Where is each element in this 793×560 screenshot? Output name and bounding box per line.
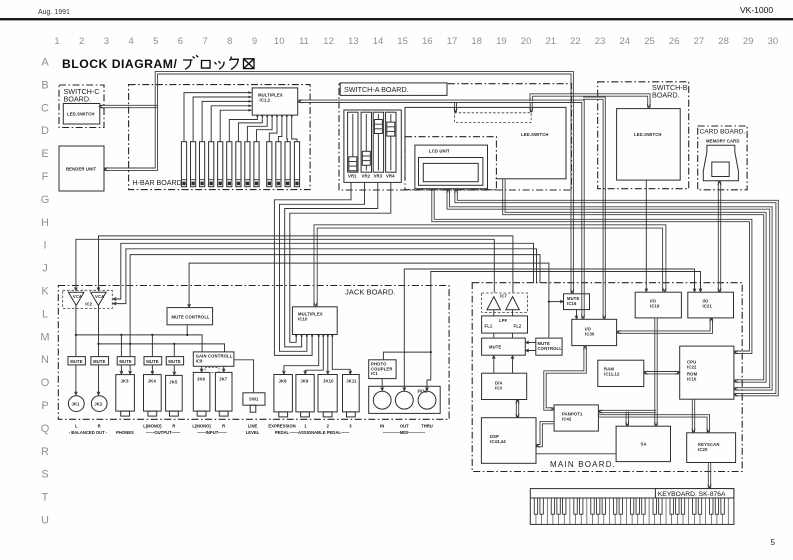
wire multiplex pin6 to drawbar 11 bbox=[278, 115, 282, 141]
svg-text:MUTE: MUTE bbox=[168, 359, 181, 364]
multiplex IC1,2 bbox=[252, 88, 298, 115]
bender unit bbox=[59, 146, 104, 191]
svg-text:VR3: VR3 bbox=[374, 174, 383, 179]
wire MIDI THRU to I/O IC21 bbox=[427, 272, 701, 391]
wire KEYSCAN to keyboard (bus) bbox=[707, 463, 709, 488]
wire branch arrow to switch row A (bus) bbox=[454, 103, 456, 113]
keyboard SK-876A bbox=[530, 489, 734, 525]
svg-text:MUTE: MUTE bbox=[70, 359, 83, 364]
jack JK5 bbox=[166, 375, 183, 416]
dashed switch row bbox=[454, 113, 531, 123]
mute controll (main) bbox=[536, 338, 562, 355]
svg-text:MUTE: MUTE bbox=[146, 359, 159, 364]
svg-text:SA: SA bbox=[641, 442, 647, 447]
svg-text:LEVEL: LEVEL bbox=[246, 430, 260, 435]
board SWITCH-A bbox=[339, 84, 572, 190]
svg-text:IC10: IC10 bbox=[298, 317, 308, 322]
svg-text:H-BAR BOARD.: H-BAR BOARD. bbox=[133, 179, 184, 187]
wire multiplex pin1 to drawbar 6 bbox=[229, 115, 257, 141]
svg-text:JK2: JK2 bbox=[94, 402, 103, 407]
wire VR1 wire bbox=[274, 183, 351, 356]
board SWITCH-C bbox=[59, 85, 104, 128]
jack JK10 bbox=[318, 375, 337, 417]
svg-text:M: M bbox=[40, 331, 49, 343]
svg-text:3: 3 bbox=[104, 36, 109, 47]
svg-text:14: 14 bbox=[373, 36, 384, 47]
wire VCA1 stack a bbox=[493, 310, 495, 316]
svg-text:J: J bbox=[42, 263, 48, 275]
wire IC2 control 1 bbox=[113, 243, 533, 299]
wire jack VCA2 to JK2 lower bbox=[98, 365, 100, 395]
svg-text:O: O bbox=[41, 377, 50, 389]
drawbar 8 bbox=[245, 142, 250, 187]
title bbox=[62, 55, 254, 71]
svg-text:R: R bbox=[98, 424, 101, 429]
wire bus to I/O IC30 (2nd) (bus) bbox=[583, 99, 603, 318]
mute IC16 bbox=[564, 294, 590, 310]
svg-text:BENDER UNIT: BENDER UNIT bbox=[66, 167, 97, 172]
wire GAIN to JK7 bbox=[223, 367, 225, 372]
svg-text:JK1: JK1 bbox=[72, 402, 81, 407]
svg-text:2: 2 bbox=[327, 424, 330, 429]
svg-text:IC7: IC7 bbox=[500, 294, 507, 299]
svg-text:H: H bbox=[41, 217, 49, 229]
svg-text:JK3: JK3 bbox=[121, 379, 130, 384]
slider VR4 bbox=[386, 112, 396, 178]
svg-text:VR2: VR2 bbox=[362, 174, 371, 179]
svg-text:LED.SWITCH: LED.SWITCH bbox=[634, 132, 662, 137]
wire VR4 wire bbox=[290, 183, 391, 342]
svg-text:IC42: IC42 bbox=[562, 416, 572, 421]
svg-text:5: 5 bbox=[771, 538, 776, 547]
svg-text:LINE: LINE bbox=[248, 424, 258, 429]
svg-text:OUT: OUT bbox=[400, 424, 409, 429]
wire multiplex pin2 to drawbar 7 bbox=[238, 115, 262, 141]
wire drawbar 2 to multiplex bbox=[193, 97, 252, 141]
wire LCD bus P1 (bus) bbox=[455, 189, 776, 393]
svg-text:JK10: JK10 bbox=[323, 379, 334, 384]
jack JK2 bbox=[91, 396, 107, 412]
svg-text:IC1: IC1 bbox=[371, 371, 378, 376]
svg-text:FL2: FL2 bbox=[514, 324, 522, 329]
svg-text:9: 9 bbox=[252, 36, 257, 47]
svg-text:2: 2 bbox=[79, 36, 84, 47]
mute box 3 bbox=[117, 357, 135, 365]
wire jack VCA1 to JK1 lower bbox=[75, 365, 77, 395]
MIDI jack JK12 bbox=[369, 386, 441, 413]
wire mute bus B bbox=[99, 344, 225, 352]
svg-text:MUTE: MUTE bbox=[93, 359, 106, 364]
small dashed link bbox=[205, 368, 219, 373]
svg-text:MEMORY CARD: MEMORY CARD bbox=[706, 139, 740, 144]
svg-text:IC43,44: IC43,44 bbox=[490, 439, 506, 444]
wire mute3 feed bbox=[130, 255, 540, 357]
wire IC10 to I/O IC19 bus (bus) bbox=[317, 228, 662, 306]
svg-text:JK5: JK5 bbox=[169, 379, 178, 384]
wire FL to MUTE a bbox=[493, 333, 495, 337]
svg-text:LED.SWITCH: LED.SWITCH bbox=[67, 112, 95, 117]
wire bus to I/O IC30 & IC21 (bus) bbox=[617, 318, 712, 333]
jack JK6 bbox=[193, 372, 210, 416]
svg-text:R: R bbox=[41, 446, 49, 458]
svg-text:IC30: IC30 bbox=[585, 331, 595, 336]
switch SW1 bbox=[243, 393, 265, 412]
svg-text:EXPRESSION: EXPRESSION bbox=[268, 424, 295, 429]
D/A IC3 bbox=[482, 373, 527, 399]
drawbar 12 bbox=[285, 142, 290, 187]
wire multiplex pin8 to drawbar 13 bbox=[292, 115, 297, 141]
svg-text:IC1,2: IC1,2 bbox=[260, 98, 271, 103]
wire bus P4 (bus) bbox=[432, 190, 750, 351]
svg-text:BLOCK DIAGRAM/: BLOCK DIAGRAM/ bbox=[62, 57, 177, 71]
wire SWITCH-B to I/O IC19 bbox=[645, 180, 647, 291]
wire branch to MUTE IC16 bbox=[549, 301, 563, 303]
wire FL to MUTE b bbox=[512, 333, 514, 337]
LED.SWITCH box (SWITCH-A) bbox=[405, 107, 566, 178]
svg-text:KEYBOARD. SK-876A: KEYBOARD. SK-876A bbox=[658, 491, 726, 498]
svg-text:25: 25 bbox=[644, 36, 655, 47]
svg-text:SWITCH-A BOARD.: SWITCH-A BOARD. bbox=[344, 85, 409, 94]
slider assembly bbox=[344, 110, 401, 182]
svg-text:6: 6 bbox=[178, 36, 183, 47]
wire MIDI OUT to I/O IC21 bbox=[404, 269, 694, 391]
mute box 2 bbox=[91, 357, 109, 365]
wire LCD bus P2 (bus) bbox=[447, 189, 770, 388]
svg-text:1: 1 bbox=[304, 424, 307, 429]
jack JK4 bbox=[144, 375, 162, 417]
svg-text:LCD UNIT: LCD UNIT bbox=[429, 149, 450, 154]
svg-text:3: 3 bbox=[349, 424, 352, 429]
jack panel labels bbox=[69, 424, 433, 436]
svg-text:10: 10 bbox=[274, 36, 285, 47]
svg-text:IC20: IC20 bbox=[698, 447, 708, 452]
CPU IC22 ROM IC10 bbox=[680, 346, 734, 399]
gain controll IC8 bbox=[193, 352, 234, 366]
svg-text:D: D bbox=[41, 125, 49, 137]
svg-text:IC19: IC19 bbox=[650, 303, 660, 308]
svg-text:23: 23 bbox=[595, 36, 606, 47]
svg-text:IC8: IC8 bbox=[196, 359, 203, 364]
wire mute controll link bbox=[189, 263, 549, 338]
LED.SWITCH box (SWITCH-C) bbox=[63, 104, 100, 125]
wire SWITCH-C LED feed (bus) bbox=[100, 107, 158, 109]
svg-text:MUTE: MUTE bbox=[119, 359, 132, 364]
wire IC10 pin5 to JK8 bbox=[284, 336, 319, 374]
drawbar 6 bbox=[227, 142, 232, 187]
svg-text:B: B bbox=[41, 79, 48, 91]
svg-text:IC21: IC21 bbox=[703, 303, 713, 308]
svg-text:VR1: VR1 bbox=[348, 174, 357, 179]
wire drawbar 3 to multiplex bbox=[202, 101, 252, 141]
svg-text:JK4: JK4 bbox=[148, 379, 157, 384]
wire jack VCA1 to JK1 bbox=[75, 306, 77, 356]
katakana "block" + kanji "zu" drawn as strokes bbox=[183, 55, 254, 69]
svg-text:S: S bbox=[41, 469, 48, 481]
mute controll (jack board) bbox=[167, 308, 213, 325]
wire PANPOT - DSP link (bus) bbox=[537, 421, 554, 444]
wire branch arrow to switch row B (bus) bbox=[529, 103, 531, 113]
svg-text:26: 26 bbox=[669, 36, 680, 47]
svg-text:R: R bbox=[172, 424, 175, 429]
mute (main) bbox=[482, 338, 526, 355]
svg-text:MUTE CONTROLL: MUTE CONTROLL bbox=[172, 314, 211, 319]
wire IC2 control 2 bbox=[113, 249, 536, 304]
wire busB to MUTE5 bbox=[173, 344, 175, 356]
svg-text:U: U bbox=[41, 515, 49, 527]
svg-text:I: I bbox=[43, 240, 46, 252]
svg-text:BOARD.: BOARD. bbox=[64, 95, 92, 104]
svg-text:17: 17 bbox=[447, 36, 458, 47]
svg-text:IC16: IC16 bbox=[567, 301, 577, 306]
wire MUTE5 to JK5 bbox=[173, 365, 175, 375]
wire mute controll arrow a bbox=[526, 342, 536, 344]
wire MUTE IC16 to I/O IC30 bbox=[576, 310, 578, 319]
slider VR1 bbox=[348, 112, 358, 178]
svg-text:L: L bbox=[42, 308, 48, 320]
svg-text:E: E bbox=[41, 148, 48, 160]
svg-text:F: F bbox=[42, 171, 49, 183]
svg-text:T: T bbox=[42, 492, 49, 504]
wire MUTE3 to JK3 b bbox=[129, 365, 131, 374]
board MAIN bbox=[472, 283, 742, 472]
wire VR2 wire bbox=[280, 183, 365, 351]
svg-text:MAIN BOARD.: MAIN BOARD. bbox=[550, 460, 616, 469]
RAM IC11,12 bbox=[598, 360, 644, 386]
wire drawbar 1 to multiplex bbox=[184, 93, 252, 142]
svg-text:JK11: JK11 bbox=[346, 379, 357, 384]
op-amp pair IC7 bbox=[482, 293, 528, 312]
drawbar 9 bbox=[254, 142, 259, 187]
wire CPU to KEYSCAN (bus) bbox=[691, 400, 693, 433]
wire MUTE4 to JK4 bbox=[151, 365, 153, 374]
svg-text:CONTROLL: CONTROLL bbox=[538, 346, 563, 351]
svg-text:27: 27 bbox=[694, 36, 705, 47]
svg-text:P: P bbox=[41, 400, 48, 412]
drawbar 4 bbox=[209, 142, 214, 187]
wire GAIN to JK6 bbox=[201, 367, 203, 372]
svg-text:29: 29 bbox=[743, 36, 754, 47]
wire main VCA2 to jack VCA2 bbox=[99, 236, 513, 293]
svg-text:7: 7 bbox=[202, 36, 207, 47]
drawbar 2 bbox=[191, 142, 196, 187]
svg-text:21: 21 bbox=[546, 36, 557, 47]
LCD unit bbox=[415, 145, 488, 189]
wire GAIN to SW1 bbox=[234, 360, 253, 393]
svg-text:IC3: IC3 bbox=[495, 385, 502, 390]
LCD unit board bbox=[405, 137, 496, 190]
board CARD bbox=[698, 126, 747, 190]
svg-text:22: 22 bbox=[570, 36, 581, 47]
slider VR3 bbox=[373, 112, 383, 178]
jack JK3 bbox=[116, 375, 135, 417]
wire D/A - DSP bus (bus) bbox=[515, 400, 517, 417]
jack JK9 bbox=[296, 375, 314, 417]
svg-text:Q: Q bbox=[41, 423, 50, 435]
svg-text:IC11,12: IC11,12 bbox=[604, 372, 620, 377]
wire IC10 pin7 to JK10 bbox=[327, 336, 329, 374]
svg-text:K: K bbox=[41, 286, 49, 298]
LED.SWITCH box (SWITCH-B) bbox=[617, 109, 681, 181]
wire IC10 pin6 to JK9 bbox=[305, 336, 323, 374]
wire photo coupler to MIDI IN bbox=[381, 379, 383, 391]
svg-text:20: 20 bbox=[521, 36, 532, 47]
drawbar 11 bbox=[276, 142, 281, 187]
jack JK1 bbox=[68, 396, 84, 412]
DSP IC43,44 bbox=[481, 418, 536, 464]
svg-text:PHONES: PHONES bbox=[116, 430, 134, 435]
svg-text:VR4: VR4 bbox=[386, 174, 395, 179]
svg-text:24: 24 bbox=[620, 36, 631, 47]
svg-text:BOARD.: BOARD. bbox=[652, 91, 680, 100]
wire I/O IC30 - PANPOT snake (bus) bbox=[544, 346, 584, 410]
wire drawbar 5 to multiplex bbox=[220, 110, 251, 141]
wire drop to SA (bus) bbox=[625, 412, 627, 426]
wire drawbar 4 to multiplex bbox=[211, 106, 251, 142]
svg-text:VK-1000: VK-1000 bbox=[740, 5, 773, 15]
KEYSCAN IC20 bbox=[687, 433, 736, 463]
board H-BAR bbox=[129, 85, 311, 190]
op-amp pair IC2 (VCA) bbox=[63, 290, 113, 308]
memory card icon bbox=[703, 145, 738, 181]
svg-text:JK8: JK8 bbox=[279, 379, 288, 384]
drawbar 5 bbox=[218, 142, 223, 187]
wire jack VCA2 to JK2 bbox=[98, 306, 100, 356]
svg-text:IC10: IC10 bbox=[687, 376, 697, 381]
wire SWITCH-B LED feed (bus) bbox=[532, 96, 647, 108]
mute box 1 bbox=[68, 357, 85, 365]
svg-text:18: 18 bbox=[471, 36, 482, 47]
svg-text:VCA: VCA bbox=[73, 294, 82, 299]
wire IC10 pin8 to JK11 bbox=[332, 336, 350, 374]
wire busA to MUTE4 bbox=[151, 335, 153, 356]
svg-text:IC22: IC22 bbox=[687, 364, 697, 369]
svg-text:4: 4 bbox=[128, 36, 133, 47]
svg-text:——INPUT——: ——INPUT—— bbox=[197, 430, 227, 435]
board SWITCH-B bbox=[598, 82, 689, 189]
wire photo coupler feed bbox=[383, 352, 430, 359]
svg-text:N: N bbox=[41, 354, 49, 366]
wire multiplex pin3 to drawbar 8 bbox=[247, 115, 267, 141]
svg-text:JK6: JK6 bbox=[197, 376, 206, 381]
multiplex IC10 bbox=[292, 307, 337, 335]
svg-text:LED.SWITCH: LED.SWITCH bbox=[521, 132, 549, 137]
svg-text:L(MONO): L(MONO) bbox=[143, 424, 162, 429]
I/O IC19 bbox=[635, 292, 681, 318]
wire DA to MUTE a bbox=[493, 356, 495, 373]
svg-text:IC2: IC2 bbox=[85, 302, 92, 307]
svg-text:VCA: VCA bbox=[95, 294, 104, 299]
svg-text:LPF: LPF bbox=[499, 318, 508, 323]
wire multiplex IC1,2 to I/O IC30 bus (bus) bbox=[299, 103, 582, 319]
wire VR3 wire bbox=[285, 183, 378, 347]
slider VR2 bbox=[361, 112, 371, 178]
svg-text:11: 11 bbox=[299, 36, 309, 47]
svg-text:16: 16 bbox=[422, 36, 433, 47]
drawbar 1 bbox=[181, 142, 186, 187]
wire DSP to SA bbox=[537, 453, 616, 455]
wire VCA2 stack a bbox=[512, 310, 514, 316]
jack JK11 bbox=[343, 375, 360, 417]
svg-text:PEDAL: PEDAL bbox=[275, 430, 290, 435]
wire multiplex pin5 to drawbar 10 bbox=[269, 115, 277, 141]
svg-text:——OUTPUT——: ——OUTPUT—— bbox=[146, 430, 181, 435]
mute box 4 bbox=[144, 357, 162, 365]
svg-text:15: 15 bbox=[397, 36, 408, 47]
wire busA to MUTE3 bbox=[120, 335, 122, 356]
svg-text:30: 30 bbox=[768, 36, 779, 47]
wire MUTE3 to JK3 a bbox=[120, 365, 122, 374]
svg-text:CARD BOARD.: CARD BOARD. bbox=[700, 129, 746, 136]
svg-text:————MIDI————: ————MIDI———— bbox=[383, 430, 426, 435]
header rule bbox=[0, 18, 793, 20]
svg-text:THRU: THRU bbox=[421, 424, 433, 429]
mute box 5 bbox=[166, 357, 183, 365]
svg-text:IN: IN bbox=[380, 424, 384, 429]
svg-text:L(MONO): L(MONO) bbox=[192, 424, 211, 429]
svg-text:JACK BOARD.: JACK BOARD. bbox=[345, 288, 396, 297]
svg-text:FL1: FL1 bbox=[485, 324, 493, 329]
svg-text:Aug. 1991: Aug. 1991 bbox=[38, 9, 70, 16]
wire mute controll arrow b bbox=[526, 350, 536, 352]
svg-text:12: 12 bbox=[323, 36, 334, 47]
svg-text:13: 13 bbox=[348, 36, 359, 47]
wire RAM - CPU bus (bus) bbox=[644, 373, 679, 375]
svg-text:A: A bbox=[41, 57, 49, 69]
drawbar 13 bbox=[294, 142, 299, 187]
svg-text:——ASSIGNABLE PEDAL——: ——ASSIGNABLE PEDAL—— bbox=[290, 430, 350, 435]
wire PANPOT - KEYSCAN (bus) bbox=[599, 417, 707, 432]
wire multiplex pin7 to drawbar 12 bbox=[286, 115, 289, 141]
svg-text:5: 5 bbox=[153, 36, 158, 47]
I/O IC21 bbox=[688, 292, 734, 318]
jack JK7 bbox=[215, 372, 232, 416]
wire memory card to I/O IC21 (bus) bbox=[717, 181, 719, 291]
jack JK8 bbox=[274, 375, 293, 417]
svg-text:G: G bbox=[41, 194, 50, 206]
svg-text:8: 8 bbox=[227, 36, 232, 47]
svg-text:MUTE: MUTE bbox=[489, 345, 502, 350]
photo coupler IC1 bbox=[369, 360, 396, 379]
PANPOT IC42 bbox=[554, 405, 598, 431]
svg-text:28: 28 bbox=[718, 36, 729, 47]
piano keys bbox=[536, 498, 728, 524]
wire mute bus A bbox=[76, 335, 202, 352]
wire LED.SWITCH-A bus P3 (bus) bbox=[503, 179, 764, 379]
svg-text:JK9: JK9 bbox=[300, 379, 309, 384]
svg-text:19: 19 bbox=[496, 36, 507, 47]
svg-text:L: L bbox=[75, 424, 78, 429]
svg-text:- BALANCED OUT -: - BALANCED OUT - bbox=[69, 430, 108, 435]
wire bus to PANPOT (bus) bbox=[599, 412, 656, 414]
SA bbox=[616, 426, 670, 461]
svg-text:R: R bbox=[222, 424, 225, 429]
I/O IC30 bbox=[572, 319, 617, 345]
svg-text:C: C bbox=[41, 102, 49, 114]
wire bender/H1 bus to MUTE IC16 (bus) bbox=[104, 74, 571, 293]
LPF FL1 FL2 bbox=[482, 316, 528, 333]
wire mute controll drop bbox=[186, 325, 188, 335]
board JACK bbox=[58, 286, 449, 420]
wire main VCA1 to jack VCA1 bbox=[76, 239, 494, 292]
wire multiplex pin4 to drawbar 9 bbox=[257, 115, 273, 141]
wire DA to MUTE b bbox=[512, 356, 514, 373]
drawbar 7 bbox=[236, 142, 241, 187]
svg-text:SW1: SW1 bbox=[249, 397, 259, 402]
svg-text:JK7: JK7 bbox=[219, 376, 228, 381]
svg-text:1: 1 bbox=[54, 36, 59, 47]
drawbar 3 bbox=[200, 142, 205, 187]
wire main vertical bus (bus) bbox=[654, 318, 656, 425]
